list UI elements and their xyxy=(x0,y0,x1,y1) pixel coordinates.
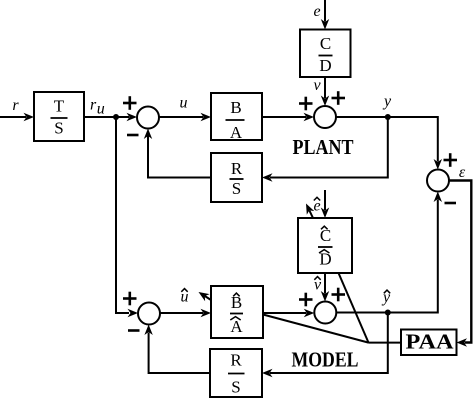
svg-text:R: R xyxy=(231,159,243,178)
plus sign S1 xyxy=(123,96,137,110)
sum junction S1 xyxy=(137,107,159,129)
wire stub arrow into Chat/Dhat xyxy=(321,190,329,218)
svg-text:PAA: PAA xyxy=(406,330,455,354)
block PAA xyxy=(401,330,457,356)
wire yhat to eps minus xyxy=(388,192,442,313)
label v hat xyxy=(314,277,322,294)
wire C/D to sum2 xyxy=(321,77,329,106)
plus sign S3 xyxy=(123,292,137,306)
node y junction dot xyxy=(385,114,391,120)
wire PAA node to PAA block xyxy=(369,342,402,344)
svg-text:PLANT: PLANT xyxy=(293,135,354,159)
minus sign S3 xyxy=(128,329,140,332)
svg-text:S: S xyxy=(232,179,241,198)
wire e hat output arrow xyxy=(306,204,314,219)
wire sum3 to Bhat/Ahat xyxy=(160,309,211,317)
wire R/S model to sum3 minus xyxy=(144,325,210,374)
sum junction S3 xyxy=(138,303,160,325)
wire u hat output arrow xyxy=(199,292,212,301)
svg-text:D: D xyxy=(319,56,331,75)
wire diagonal Bhat/Ahat to PAA node xyxy=(263,315,369,343)
svg-text:v: v xyxy=(313,77,321,94)
wire Chat/Dhat to sum4 xyxy=(321,273,329,302)
wire B/A to sum2 xyxy=(262,113,314,121)
minus sign S5 xyxy=(445,202,457,205)
wire Bhat/Ahat to sum4 xyxy=(263,309,314,317)
wire diagonal Chat/Dhat to PAA node xyxy=(339,273,369,343)
svg-text:B: B xyxy=(231,293,242,312)
svg-text:r: r xyxy=(12,97,19,114)
svg-text:T: T xyxy=(54,97,65,116)
svg-text:B: B xyxy=(230,98,241,117)
label u hat xyxy=(181,289,189,306)
svg-text:S: S xyxy=(231,378,240,397)
block T/S xyxy=(34,92,84,141)
label y hat xyxy=(381,289,391,306)
plus sign S5 xyxy=(444,153,458,167)
wire r input with arrow xyxy=(0,113,34,121)
svg-text:y: y xyxy=(382,93,392,110)
svg-text:e: e xyxy=(313,3,320,20)
wire R/S plant to sum1 minus xyxy=(144,129,211,178)
wire sum2 to eps sum xyxy=(336,117,442,170)
svg-text:R: R xyxy=(230,351,242,370)
wire r_u down to model sum3 xyxy=(116,117,138,317)
wire sum4 to y hat node xyxy=(336,312,388,314)
block R/S model xyxy=(210,349,262,397)
wire y hat down into R/S model xyxy=(262,313,388,378)
wire T/S to sum1 xyxy=(84,113,137,121)
plus sign S2 left xyxy=(299,97,313,111)
label r_u xyxy=(90,97,105,118)
svg-text:u: u xyxy=(97,101,105,118)
svg-text:A: A xyxy=(230,317,243,336)
label e hat xyxy=(313,197,320,214)
block B/A xyxy=(211,93,262,142)
block R/S plant xyxy=(211,153,262,202)
block C/D xyxy=(300,30,351,78)
svg-text:u: u xyxy=(180,95,188,112)
sum junction S2 xyxy=(314,106,336,128)
block Chat/Dhat xyxy=(298,218,352,273)
svg-text:S: S xyxy=(54,119,63,138)
sum junction S4 xyxy=(314,302,336,324)
svg-text:A: A xyxy=(230,123,243,142)
plus sign S4 left xyxy=(299,293,313,307)
wire eps output to PAA xyxy=(449,181,471,347)
wire y down into R/S plant xyxy=(262,117,388,182)
plus sign S4 right xyxy=(332,288,346,302)
wire sum1 to B/A xyxy=(159,113,211,121)
node y hat junction dot xyxy=(385,310,391,316)
svg-text:C: C xyxy=(320,34,331,53)
plus sign S2 right xyxy=(332,91,346,105)
wire e input into C/D xyxy=(321,0,329,30)
node r_u junction dot xyxy=(113,114,119,120)
block Bhat/Ahat xyxy=(211,286,263,338)
sum junction S5 eps xyxy=(427,170,449,192)
minus sign S1 xyxy=(127,134,139,137)
svg-text:MODEL: MODEL xyxy=(292,348,359,372)
svg-text:ε: ε xyxy=(459,164,466,181)
